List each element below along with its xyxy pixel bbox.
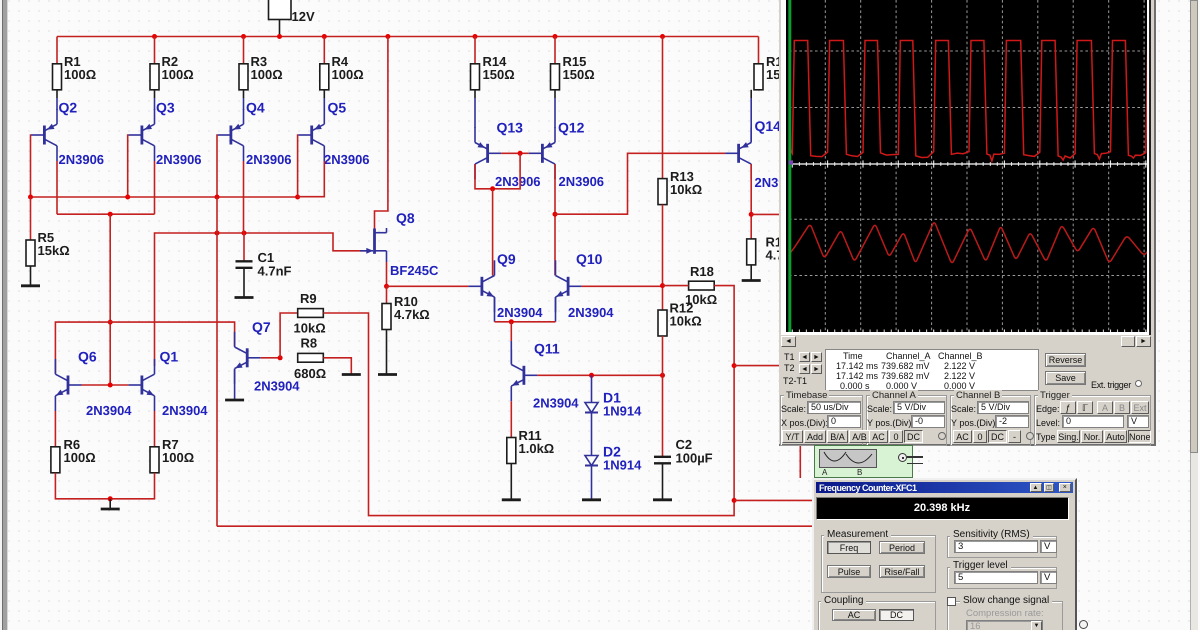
resistor R10 [382,294,430,330]
svg-text:2N3904: 2N3904 [162,403,208,418]
svg-text:680Ω: 680Ω [294,366,326,381]
svg-text:4.7nF: 4.7nF [258,264,292,279]
wire R2 feed [154,37,156,64]
node mirror base tie [518,151,523,156]
svg-text:R8: R8 [301,336,318,351]
wire C1 feed [243,233,245,261]
node Q7 base/R8/R9 [278,355,283,360]
resistor R1 [53,54,97,90]
node R18 node [660,283,665,288]
left window edge bar [0,0,8,630]
wire R9 right to output rail [323,313,734,516]
wire Q11 base line [537,374,662,376]
node top bus junction [322,34,327,39]
ground R5 ground [21,284,40,287]
svg-text:2N3906: 2N3906 [559,174,605,189]
node C1 line x217 [215,231,220,236]
wire bottom feedback rail [217,525,813,527]
wire Q11 emitter [510,401,512,437]
resistor R14 [471,54,515,90]
wire tap to scope (hidden) [734,365,783,367]
svg-text:150Ω: 150Ω [483,67,515,82]
resistor R9 [294,291,326,336]
svg-text:2N3904: 2N3904 [86,403,132,418]
resistor R17 [747,235,802,265]
wire D2 to ground [591,466,593,500]
wire Q1 collector riser [155,233,367,366]
svg-text:Q3: Q3 [156,100,175,116]
scope screen [781,0,1151,336]
Frequency counter window [812,478,1077,630]
scope scrollbar [781,335,1151,348]
wire bus2 to diff pair [109,214,111,385]
resistor R2 [150,54,194,90]
node top bus junction [385,34,390,39]
node C1 top [242,231,247,236]
wire mirror diode tie [493,153,520,189]
wire R15 to Q12 emitter [554,90,556,98]
svg-text:Q4: Q4 [246,100,265,116]
resistor R13 [658,169,702,205]
wire Q10 base line [582,285,663,287]
wire scope icon probe [799,445,801,478]
wire R14 feed [474,37,476,64]
svg-text:Q8: Q8 [396,210,415,226]
battery V1 12V [269,0,315,37]
transistor Q11 (2N3904) [511,341,579,411]
wire R15 feed [554,37,556,64]
node output tap lower [732,498,737,503]
svg-text:10kΩ: 10kΩ [294,321,326,336]
node Q14 collector tap [749,212,754,217]
ground R6R7 ground [101,508,120,511]
wire R10 to ground [386,330,388,375]
transistor Q4 (2N3906) [217,100,291,168]
wire R5 to ground [30,266,32,286]
svg-text:100Ω: 100Ω [332,67,364,82]
wire Q1 emitter [154,411,156,447]
ground R8 ground [342,373,361,376]
wire Q4 collector down [243,161,245,233]
wire Q14 collector [750,164,752,239]
resistor R18 [685,264,717,307]
wire gnd stem [109,499,111,509]
wire tap to scope B (hidden) [751,213,783,215]
oscilloscope window [779,0,1156,446]
wire source to Q9 base [387,285,469,287]
wire R12 bottom [662,336,664,375]
node top bus junction [241,34,246,39]
resistor R15 [551,54,595,90]
node Q8 source / R10 [384,284,389,289]
ground R11 ground [502,498,521,501]
svg-text:1N914: 1N914 [603,458,642,473]
svg-text:2N3904: 2N3904 [568,305,614,320]
node D1 top [589,373,594,378]
node bus2 tap [108,212,113,217]
ground C2 ground [653,498,672,501]
node tap crosses Q6 line [108,320,113,325]
wire mirror bus2 [57,213,155,215]
right scrollbar [1190,0,1198,630]
wire R18 left [663,285,689,287]
wire R5 feed [30,197,32,240]
wire Q6-Q1 base tie [82,384,129,386]
svg-text:Q6: Q6 [78,349,97,365]
wire +12V top bus [57,36,759,38]
group boxes [780,395,863,446]
wire Q3 base drop [127,135,130,197]
wire Q7 emitter [234,370,236,400]
wire D1-D2 [591,413,593,456]
svg-text:100Ω: 100Ω [64,67,96,82]
ground D2 ground [582,498,601,501]
resistor R16 [754,54,798,90]
svg-text:100Ω: 100Ω [64,450,96,465]
ground C1 ground [235,296,254,299]
wire Q5 collector to bus1 [298,161,325,197]
wire R4 feed [323,37,325,64]
wire R16 feed [758,37,760,64]
wire R9 riser [280,313,298,358]
svg-text:Q11: Q11 [534,341,560,357]
svg-text:150Ω: 150Ω [563,67,595,82]
svg-text:Q7: Q7 [252,319,271,335]
node Q13 col / Q9 col [490,186,495,191]
transistor Q8 (BF245C) [360,210,439,278]
svg-text:Q1: Q1 [160,349,179,365]
svg-text:R18: R18 [690,264,714,279]
transistor Q13 (2N3906) [475,120,541,190]
wire Q10 emitter [555,297,557,322]
transistor Q6 (2N3904) [55,349,132,419]
resistor R5 [26,230,70,266]
transistor Q9 (2N3904) [468,251,543,320]
svg-text:10kΩ: 10kΩ [670,182,702,197]
svg-text:Q9: Q9 [497,251,516,267]
svg-text:10kΩ: 10kΩ [685,292,717,307]
node top bus junction [473,34,478,39]
wire Q4 base drop [216,135,218,197]
wire emitter feed [323,90,325,98]
wire D1 feed [591,375,593,402]
resistor R7 [150,437,194,473]
wire R6 bottom [55,473,155,499]
svg-text:2N3906: 2N3906 [156,152,202,167]
transistor Q5 (2N3906) [298,100,369,168]
svg-text:10kΩ: 10kΩ [670,314,702,329]
oscilloscope icon on canvas [814,445,913,478]
ground R10 ground [378,373,397,376]
transistor Q3 (2N3906) [128,100,201,168]
svg-text:Q5: Q5 [328,100,347,116]
diode D1 [585,390,642,419]
node bus1 left + R5 [28,195,33,200]
wire Q2 collector [56,161,58,214]
readout area [784,352,795,362]
wire Q8 drain from bus [375,37,388,229]
svg-text:2N3906: 2N3906 [246,152,292,167]
wire Q3 collector [154,161,156,214]
wire Q9 collector riser [492,189,494,276]
wire Q7 base to R8 [261,357,280,359]
wire R11 to ground [510,464,512,500]
svg-text:4.7kΩ: 4.7kΩ [394,307,430,322]
resistor R6 [51,437,96,473]
wire Q6 emitter [54,411,56,447]
wire Q7 collector from mirror line [55,322,234,373]
wire emitter tie [495,321,556,323]
wire emitter feed [56,90,58,98]
svg-text:2N3906: 2N3906 [495,174,541,189]
wire R7 bottom [154,473,156,499]
wire R16 to Q14 emitter [750,90,752,98]
transistor Q14 (2N3906) [725,118,800,190]
svg-text:Q10: Q10 [576,251,603,267]
node emitter tie tap [509,319,514,324]
wire C1 to ground [243,268,245,298]
capacitor C2 [654,437,713,466]
capacitor C1 [236,250,292,279]
wire C2 to ground [662,463,664,500]
wire Q13 collector [475,164,493,189]
svg-text:1.0kΩ: 1.0kΩ [519,441,555,456]
svg-text:2N3906: 2N3906 [324,152,370,167]
wire Q13-Q12 base tie [501,152,529,154]
transistor Q1 (2N3904) [128,349,208,419]
wire R17 to ground [750,265,752,281]
node emitter gnd tie [108,496,113,501]
wire emitter feed [243,90,245,98]
node Q12 col tap [553,212,558,217]
svg-text:R9: R9 [300,291,317,306]
node top bus junction [152,34,157,39]
svg-text:BF245C: BF245C [390,263,439,278]
svg-text:Q12: Q12 [558,120,585,136]
node R12/C2 [660,373,665,378]
svg-text:Q2: Q2 [59,100,78,116]
node bus1 Q5 [295,195,300,200]
svg-text:15kΩ: 15kΩ [38,243,70,258]
node output tap upper [732,363,737,368]
resistor R11 [507,428,554,464]
wire R3 feed [243,37,245,64]
resistor R8 [294,336,326,382]
transistor Q2 (2N3906) [31,100,104,168]
wire R1 feed [56,37,58,64]
transistor Q12 (2N3906) [529,120,604,190]
svg-text:2N3906: 2N3906 [59,152,105,167]
svg-text:1N914: 1N914 [603,404,642,419]
svg-text:2N3904: 2N3904 [533,396,579,411]
transistor Q7 (2N3904) [235,319,301,394]
wire R13-R18 junction [662,205,664,310]
transistor Q10 (2N3904) [556,251,615,320]
node bus1 Q4 [215,195,220,200]
svg-text:100Ω: 100Ω [162,67,194,82]
wire base bus1 [31,196,298,198]
wire emitter feed [154,90,156,98]
wire C2 feed [662,375,664,457]
node top bus junction [660,34,665,39]
node base tie [108,383,113,388]
node top bus junction [553,34,558,39]
wire Q9 emitter [494,297,496,322]
svg-text:Q14: Q14 [755,118,782,134]
wire R14 to Q13 emitter [474,90,476,98]
wire Q5 base drop [297,135,300,197]
wire R8 right to ground [323,358,351,374]
svg-text:100Ω: 100Ω [251,67,283,82]
resistor R4 [320,54,364,90]
wire R10 feed [386,286,388,303]
resistor R3 [239,54,283,90]
wire to Q14 base [555,153,725,214]
wire Q12 collector down [554,164,556,275]
ground R17 ground [742,279,761,282]
diode D2 [585,444,642,473]
svg-text:100µF: 100µF [676,451,713,466]
svg-text:Q13: Q13 [497,120,524,136]
wire R18 right drop [714,286,734,501]
wire Q8 source [386,262,388,286]
node bus1 Q3 [125,195,130,200]
wire to freq counter [734,499,813,501]
node battery junction [277,34,282,39]
wire Q2 base drop [30,135,32,197]
svg-text:100Ω: 100Ω [162,450,194,465]
wire Q11 collector [510,322,512,341]
ground Q7 ground [225,399,244,402]
svg-text:12V: 12V [292,9,315,24]
wire x217 drop [216,197,218,526]
svg-text:2N3904: 2N3904 [497,305,543,320]
resistor R12 [658,301,702,337]
wire R13 feed [662,37,664,179]
